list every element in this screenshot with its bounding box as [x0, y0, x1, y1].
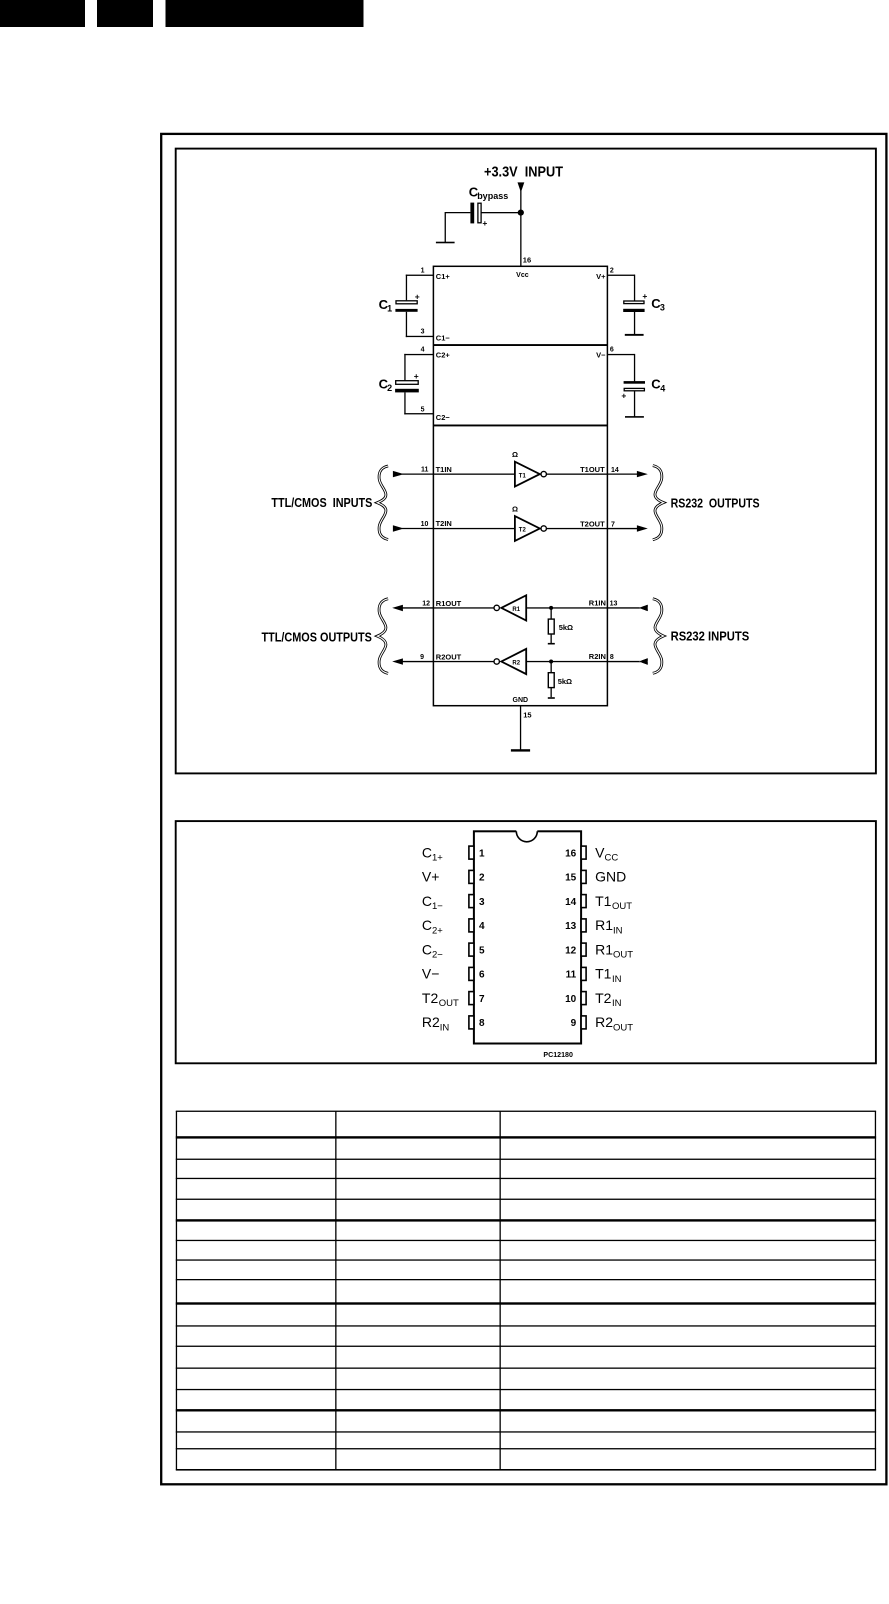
svg-text:2: 2 [479, 873, 485, 884]
label pin7 T2OUT [422, 990, 459, 1009]
pin 1 number [421, 267, 425, 274]
ground (bypass) [436, 242, 455, 244]
resistor 5k (R2) [548, 662, 555, 699]
pin C1+ label [436, 272, 451, 281]
table row line 4 [176, 1240, 876, 1241]
label pin13 R1IN [595, 917, 623, 936]
table row line 12 [176, 1448, 876, 1449]
wire C1 to pin 3 [406, 312, 407, 337]
pin V- label [596, 351, 606, 360]
pin R2OUT label [436, 652, 462, 661]
svg-text:RS232 INPUTS: RS232 INPUTS [671, 629, 750, 644]
pin number 14 [565, 897, 577, 908]
svg-text:Vcc: Vcc [516, 272, 529, 279]
wire bubble to R2 [433, 661, 494, 662]
pin 12 stub [581, 943, 586, 956]
pin number 1 [479, 848, 485, 859]
wire pin 5 [404, 413, 433, 414]
table column separator 1 [335, 1111, 336, 1470]
pin 8 number [610, 654, 614, 661]
driver T1 [515, 462, 547, 487]
svg-text:4: 4 [421, 347, 425, 354]
svg-text:2−: 2− [432, 950, 443, 961]
wire T1 to T1OUT [546, 474, 607, 475]
receiver R2 [494, 649, 526, 674]
pin number 2 [479, 873, 485, 884]
svg-text:+: + [415, 291, 420, 301]
pin 3 number [421, 328, 425, 335]
table row line 9 [176, 1368, 876, 1369]
svg-text:T2: T2 [595, 990, 612, 1006]
wire T1IN with arrow [393, 471, 434, 477]
capacitor C4 [621, 381, 645, 401]
pin 15 stub [581, 870, 586, 883]
svg-text:3: 3 [660, 302, 665, 312]
label pin16 VCC [595, 844, 618, 863]
table group separator 1 [176, 1219, 876, 1221]
svg-text:C: C [422, 893, 432, 909]
wire pin4 to C2 [404, 354, 405, 381]
table group separator 2 [176, 1302, 876, 1304]
pin number 6 [479, 970, 485, 981]
capacitor C2 [395, 371, 419, 392]
svg-text:V−: V− [422, 966, 440, 982]
svg-text:14: 14 [611, 467, 619, 474]
pin 16 number [523, 256, 531, 265]
svg-text:T1: T1 [595, 966, 612, 982]
junction dot R1IN [549, 606, 553, 610]
svg-text:GND: GND [513, 697, 529, 704]
pin 9 number [420, 654, 424, 661]
svg-text:OUT: OUT [439, 998, 459, 1009]
pin 10 number [421, 521, 429, 528]
label 5k (R2) [558, 677, 572, 686]
ground (C3) [625, 334, 644, 336]
wire T2IN to T2 [433, 528, 515, 529]
pin V+ label [596, 272, 606, 281]
pin number 16 [565, 848, 577, 859]
pin GND label [513, 697, 529, 704]
svg-text:OUT: OUT [612, 901, 632, 912]
redaction bar 1 [0, 0, 85, 27]
DIP16 package body [474, 831, 581, 1043]
wire R1 to R1IN [526, 607, 607, 608]
svg-text:CC: CC [605, 853, 619, 864]
table top border [176, 1111, 876, 1112]
svg-text:5kΩ: 5kΩ [559, 623, 573, 632]
pin R1IN label [589, 599, 606, 608]
brace left (TTL inputs) [377, 466, 388, 540]
schematic figure box [176, 149, 876, 774]
table right border [875, 1111, 876, 1470]
pin 1 stub [469, 846, 474, 859]
svg-text:15: 15 [523, 710, 531, 719]
wire pin 3 [406, 336, 434, 337]
wire R1IN with arrow [607, 605, 647, 611]
pin number 8 [479, 1018, 485, 1029]
label RS232 INPUTS [671, 629, 750, 644]
svg-text:12: 12 [422, 600, 430, 607]
wire pin6 to C4 [634, 354, 635, 382]
svg-text:R2: R2 [512, 661, 520, 667]
pin 14 stub [581, 895, 586, 908]
table row line 10 [176, 1389, 876, 1390]
svg-text:1: 1 [421, 267, 425, 274]
svg-text:OUT: OUT [613, 1022, 633, 1033]
brace right (RS232 outputs) [653, 466, 664, 540]
svg-text:9: 9 [420, 654, 424, 661]
pin Vcc label [516, 272, 529, 279]
ground (C4) [625, 416, 644, 418]
svg-text:T2IN: T2IN [436, 519, 452, 528]
table group separator 3 [176, 1409, 876, 1411]
pin number 15 [565, 873, 577, 884]
svg-text:2: 2 [387, 383, 392, 393]
label TTL/CMOS OUTPUTS [262, 629, 373, 644]
svg-text:+: + [482, 218, 487, 228]
pin 14 number [611, 467, 619, 474]
svg-text:bypass: bypass [477, 191, 508, 201]
svg-text:5: 5 [421, 406, 425, 413]
svg-text:IN: IN [613, 925, 623, 936]
wire bubble to R1 [433, 607, 494, 608]
svg-text:R2OUT: R2OUT [436, 652, 462, 661]
svg-text:13: 13 [565, 921, 577, 932]
pin 2 stub [469, 870, 474, 883]
pin 2 number [610, 267, 614, 274]
label omega T2 [512, 504, 518, 513]
svg-text:7: 7 [611, 521, 615, 528]
IC box U1 [433, 266, 607, 705]
wire pin 6 [607, 354, 634, 355]
svg-text:6: 6 [479, 970, 485, 981]
wire T1OUT with arrow [607, 471, 647, 477]
svg-text:3: 3 [479, 897, 485, 908]
wire R2OUT with arrow [392, 658, 433, 664]
svg-text:TTL/CMOS INPUTS: TTL/CMOS INPUTS [271, 495, 372, 510]
label pin8 R2IN [422, 1014, 450, 1033]
svg-text:2: 2 [610, 267, 614, 274]
svg-text:PC12180: PC12180 [543, 1052, 573, 1059]
label C2 [379, 377, 393, 394]
label pin1 C1+ [422, 844, 443, 863]
pin 12 number [422, 600, 430, 607]
svg-text:1−: 1− [432, 901, 443, 912]
svg-text:C1+: C1+ [436, 272, 451, 281]
wire C4 to ground [634, 391, 635, 417]
pin R2IN label [589, 652, 606, 661]
wire T1IN to T1 [433, 474, 515, 475]
svg-text:+3.3V INPUT: +3.3V INPUT [484, 163, 563, 180]
pin 4 number [421, 347, 425, 354]
pin 6 stub [469, 967, 474, 980]
svg-text:T2OUT: T2OUT [580, 519, 605, 528]
pin 7 number [611, 521, 615, 528]
table row line 8 [176, 1346, 876, 1347]
svg-text:4: 4 [479, 921, 485, 932]
label C4 [651, 376, 665, 393]
wire Vcc vertical [520, 190, 521, 267]
pin number 5 [479, 945, 485, 956]
junction dot Vcc node [518, 210, 524, 216]
pin number 12 [565, 945, 577, 956]
label pin3 C1- [422, 893, 443, 912]
brace left (TTL outputs) [377, 599, 388, 674]
pin C2- label [436, 413, 451, 422]
svg-text:6: 6 [610, 347, 614, 354]
pin number 3 [479, 897, 485, 908]
label Cbypass [469, 184, 508, 201]
svg-text:+: + [642, 291, 647, 301]
label omega T1 [512, 450, 518, 459]
pin T1IN label [436, 465, 452, 474]
label TTL/CMOS INPUTS [271, 495, 372, 510]
svg-text:IN: IN [612, 974, 622, 985]
label pin15 GND [595, 869, 626, 885]
label pin6 V- [422, 966, 440, 982]
wire T2OUT with arrow [607, 525, 647, 531]
pin 13 number [610, 601, 618, 608]
svg-text:15: 15 [565, 873, 577, 884]
svg-text:C: C [422, 941, 432, 957]
pin number 10 [565, 994, 577, 1005]
pin number 13 [565, 921, 577, 932]
svg-text:5: 5 [479, 945, 485, 956]
pin T1OUT label [580, 465, 605, 474]
table column separator 2 [500, 1111, 501, 1470]
wire T2 to T2OUT [546, 528, 607, 529]
svg-text:8: 8 [479, 1018, 485, 1029]
wire C2 to pin 5 [404, 392, 405, 414]
brace right (RS232 inputs) [653, 599, 664, 674]
table bottom border [176, 1469, 876, 1471]
svg-text:V+: V+ [422, 869, 440, 885]
pin T2OUT label [580, 519, 605, 528]
svg-text:1: 1 [479, 848, 485, 859]
label pin2 V+ [422, 869, 440, 885]
svg-text:4: 4 [660, 383, 665, 393]
table left border [176, 1111, 177, 1470]
capacitor C3 [623, 291, 647, 312]
svg-text:R1OUT: R1OUT [436, 599, 462, 608]
figure code PC12180 [543, 1052, 573, 1059]
wire C3 to ground [634, 312, 635, 335]
wire pin 1 [406, 275, 434, 276]
svg-text:9: 9 [571, 1018, 577, 1029]
table row line 2 [176, 1178, 876, 1179]
pin T2IN label [436, 519, 452, 528]
table row line 7 [176, 1325, 876, 1326]
svg-text:T1: T1 [519, 473, 527, 479]
wire pin 4 [404, 354, 433, 355]
svg-text:OUT: OUT [613, 950, 633, 961]
svg-text:12: 12 [565, 945, 577, 956]
wire R1OUT with arrow [392, 605, 433, 611]
svg-text:T2: T2 [519, 528, 527, 534]
svg-text:C1−: C1− [436, 333, 451, 342]
redaction bar 2 [97, 0, 153, 27]
label RS232 OUTPUTS [671, 496, 760, 511]
svg-text:V−: V− [596, 351, 606, 360]
svg-text:1+: 1+ [432, 853, 443, 864]
svg-text:R1: R1 [595, 941, 613, 957]
table row line 5 [176, 1259, 876, 1260]
wire pin 15 to ground [520, 706, 521, 750]
pin 11 number [421, 466, 429, 473]
label 5k (R1) [559, 623, 573, 632]
label pin4 C2+ [422, 917, 443, 936]
pin C2+ label [436, 351, 451, 360]
svg-text:10: 10 [421, 521, 429, 528]
svg-text:8: 8 [610, 654, 614, 661]
pin number 4 [479, 921, 485, 932]
label pin11 T1IN [595, 966, 622, 985]
svg-text:R1IN: R1IN [589, 599, 606, 608]
label pin12 R1OUT [595, 941, 633, 960]
svg-text:V+: V+ [596, 272, 606, 281]
wire pin1 to C1 [406, 275, 407, 301]
svg-text:+: + [621, 391, 626, 401]
svg-text:IN: IN [440, 1022, 450, 1033]
svg-text:7: 7 [479, 994, 485, 1005]
label C3 [651, 296, 665, 313]
svg-text:C: C [422, 917, 432, 933]
pin 7 stub [469, 992, 474, 1005]
svg-text:5kΩ: 5kΩ [558, 677, 572, 686]
resistor 5k (R1) [548, 608, 555, 645]
pin 15 number [523, 710, 531, 719]
pin 8 stub [469, 1016, 474, 1029]
svg-text:+: + [414, 371, 419, 381]
svg-text:C2+: C2+ [436, 351, 451, 360]
wire Cbypass to Vcc node [482, 212, 522, 213]
wire R2 to R2IN [526, 661, 607, 662]
pin number 11 [566, 970, 577, 981]
capacitor Cbypass [470, 203, 487, 228]
svg-text:10: 10 [565, 994, 577, 1005]
svg-text:1: 1 [387, 304, 392, 314]
label pin5 C2- [422, 941, 443, 960]
pin 3 stub [469, 895, 474, 908]
table row line 3 [176, 1199, 876, 1200]
pin 10 stub [581, 992, 586, 1005]
pin 5 stub [469, 943, 474, 956]
pin 16 stub [581, 846, 586, 859]
pin 5 number [421, 406, 425, 413]
redaction bar 3 [166, 0, 364, 27]
pin number 7 [479, 994, 485, 1005]
svg-text:11: 11 [566, 970, 577, 981]
label pin14 T1OUT [595, 893, 632, 912]
wire R2IN with arrow [607, 658, 647, 664]
table row line 11 [176, 1431, 876, 1432]
table row line 1 [176, 1159, 876, 1160]
svg-text:2+: 2+ [432, 925, 443, 936]
svg-text:14: 14 [565, 897, 577, 908]
wire pin2 to C3 [634, 275, 635, 301]
svg-text:T1: T1 [595, 893, 612, 909]
ground (GND pin) [511, 749, 530, 751]
receiver R1 [494, 595, 526, 620]
svg-text:GND: GND [595, 869, 626, 885]
svg-text:3: 3 [421, 328, 425, 335]
pin 9 stub [581, 1016, 586, 1029]
pin 4 stub [469, 919, 474, 932]
divider charge pump 1 [433, 344, 607, 346]
label C1 [379, 297, 393, 314]
wire Cbypass to ground [445, 212, 471, 242]
svg-text:IN: IN [612, 998, 622, 1009]
pin 6 number [610, 347, 614, 354]
package notch [516, 830, 537, 842]
svg-text:16: 16 [565, 848, 577, 859]
svg-text:C: C [422, 844, 432, 860]
svg-text:Ω: Ω [512, 450, 518, 459]
label pin9 R2OUT [595, 1014, 633, 1033]
pin configuration figure box [176, 821, 876, 1063]
svg-text:C2−: C2− [436, 413, 451, 422]
svg-text:11: 11 [421, 466, 429, 473]
svg-text:R2IN: R2IN [589, 652, 606, 661]
svg-text:13: 13 [610, 601, 618, 608]
pin R1OUT label [436, 599, 462, 608]
svg-text:TTL/CMOS OUTPUTS: TTL/CMOS OUTPUTS [262, 629, 373, 644]
svg-text:T2: T2 [422, 990, 439, 1006]
label pin10 T2IN [595, 990, 622, 1009]
driver T2 [515, 516, 547, 541]
pin 11 stub [581, 967, 586, 980]
table header separator [176, 1136, 876, 1138]
svg-text:R2: R2 [595, 1014, 613, 1030]
pin C1- label [436, 333, 451, 342]
svg-text:R2: R2 [422, 1014, 440, 1030]
svg-text:Ω: Ω [512, 504, 518, 513]
junction dot R2IN [549, 660, 553, 664]
table row line 6 [176, 1279, 876, 1280]
svg-text:T1IN: T1IN [436, 465, 452, 474]
svg-text:R1: R1 [595, 917, 613, 933]
divider charge pump 2 [433, 425, 607, 427]
svg-text:16: 16 [523, 256, 531, 265]
input arrow [518, 182, 525, 192]
svg-text:R1: R1 [512, 607, 520, 613]
svg-text:RS232 OUTPUTS: RS232 OUTPUTS [671, 496, 760, 511]
outer page frame [161, 134, 886, 1484]
wire pin 2 [607, 275, 635, 276]
capacitor C1 [395, 291, 419, 311]
svg-text:T1OUT: T1OUT [580, 465, 605, 474]
node +3.3V INPUT label [484, 163, 563, 180]
pin number 9 [571, 1018, 577, 1029]
wire T2IN with arrow [393, 525, 434, 531]
pin 13 stub [581, 919, 586, 932]
